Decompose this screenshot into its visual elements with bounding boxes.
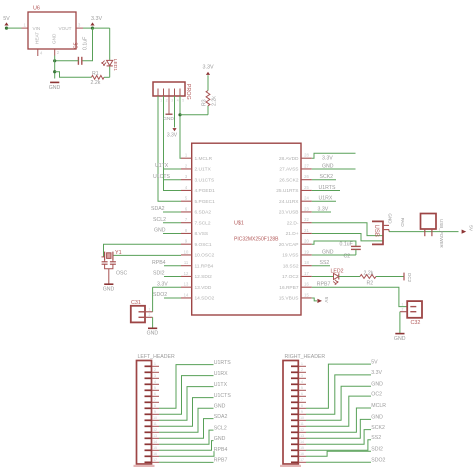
U1 left pin 1 [181,153,213,162]
svg-text:PROG: PROG [185,84,191,100]
wire RIGHT_HEADER to net GND [306,419,371,438]
svg-text:GND: GND [394,336,406,342]
svg-text:VOUT: VOUT [58,26,71,31]
wire RIGHT_HEADER to net SDI2 [306,451,371,456]
svg-text:13: 13 [300,434,304,438]
svg-text:VIN: VIN [33,26,41,31]
svg-text:SS2: SS2 [320,260,330,266]
wire GND column [54,56,56,79]
svg-text:5V: 5V [467,225,473,232]
U1 right pin 28 [279,153,312,162]
svg-text:3.3V: 3.3V [167,133,178,139]
U1 right pin 17 [282,271,312,280]
svg-text:2: 2 [166,99,168,103]
net 3.3V (U1 AVDD) [312,153,356,161]
capacitor C31 [131,300,153,322]
U6 HEAT pin stub [38,49,43,56]
net label SCK2 [312,174,336,180]
supply symbol 3.3V above R3 [203,65,214,75]
svg-text:5V: 5V [3,16,10,22]
svg-text:1: 1 [154,362,156,366]
svg-text:5: 5 [154,386,156,390]
svg-text:2: 2 [301,368,303,372]
wire LEFT_HEADER to net U1CTS [159,398,214,427]
wire R3 top [207,75,209,90]
svg-text:SDA2: SDA2 [214,414,228,420]
svg-text:3.3V: 3.3V [203,65,214,71]
svg-text:6.SDA2: 6.SDA2 [195,210,212,216]
svg-text:Y1: Y1 [115,250,122,256]
ground below C31 [148,327,157,329]
wire RIGHT_HEADER to net SCK2 [306,430,371,445]
svg-text:3.3V: 3.3V [318,206,329,212]
U1 left pin 9 [181,239,212,248]
net label U1RTS [312,185,340,191]
supply symbol 5V [3,16,10,30]
svg-text:12: 12 [153,428,157,432]
wire RIGHT_HEADER to net SS2 [306,440,371,451]
svg-text:GND: GND [388,213,393,224]
svg-text:3.3V: 3.3V [322,156,333,162]
U1 right pin 20 [279,239,312,248]
svg-text:18.SS2: 18.SS2 [283,263,299,269]
svg-text:SDI2: SDI2 [371,447,383,453]
svg-text:6: 6 [301,392,303,396]
svg-text:GND: GND [103,287,115,293]
svg-text:GND: GND [154,228,166,234]
U1 left pin 10 [181,249,215,258]
wire PROG pin5 / MCLR net [180,96,181,158]
svg-text:12: 12 [300,428,304,432]
svg-text:OC2: OC2 [407,273,412,283]
resistor R3 [202,91,218,107]
wire USB VBUS to USB_POWER [389,231,459,233]
capacitor C5 0.1uF [74,37,89,65]
svg-text:11.RPB4: 11.RPB4 [195,263,214,269]
svg-text:USB: USB [373,225,379,237]
svg-text:15: 15 [300,446,304,450]
junction at U6 GND / C5 [53,59,56,62]
svg-text:12.SDI2: 12.SDI2 [195,274,213,280]
svg-text:9.OSC1: 9.OSC1 [195,242,212,248]
wire PROG pin2 to U1 PGED1 [164,96,182,190]
wire LEFT_HEADER to net SCL2 [159,430,214,444]
svg-text:24.U1RX: 24.U1RX [279,199,299,205]
svg-text:LEFT_HEADER: LEFT_HEADER [138,354,175,360]
svg-text:16.RPB7: 16.RPB7 [279,285,299,291]
U1 left pin 6 [181,206,211,215]
U1 right pin 23 [279,206,312,215]
svg-text:GND: GND [214,404,226,410]
svg-text:U1RX: U1RX [214,371,228,377]
svg-text:SS2: SS2 [371,435,381,441]
regulator U6 [28,6,76,50]
svg-text:U1CTS: U1CTS [214,393,232,399]
svg-text:4.PGED1: 4.PGED1 [195,188,216,194]
svg-text:9: 9 [301,410,303,414]
connector USB_POWER [421,214,444,249]
svg-text:5: 5 [182,99,184,103]
svg-text:SCL2: SCL2 [153,217,166,223]
net label 3.3V (VUSB) [312,206,331,212]
svg-text:U1RTS: U1RTS [214,360,231,366]
resistor R1 [91,71,105,86]
svg-text:OSC: OSC [116,271,127,277]
svg-text:7: 7 [301,398,303,402]
svg-text:15.VBUS: 15.VBUS [279,296,299,302]
svg-text:13: 13 [153,434,157,438]
wire PROG pin1 to U1 PGEC1 [158,96,181,201]
wire OSC2 net [114,254,182,256]
wire MCLR junction to R3 [180,114,208,116]
svg-text:8: 8 [301,404,303,408]
svg-text:11: 11 [184,260,189,265]
junction MCLR net [178,113,181,116]
svg-text:11: 11 [300,422,304,426]
wire LEFT_HEADER to net RPB7 [159,461,214,463]
svg-text:RIGHT_HEADER: RIGHT_HEADER [285,354,326,360]
wire RIGHT_HEADER to net SDO2 [306,461,371,463]
svg-text:2.U1TX: 2.U1TX [195,167,212,173]
svg-text:RPB7: RPB7 [214,458,228,464]
wire LEFT_HEADER to net GND [159,408,214,432]
svg-text:SDO2: SDO2 [371,457,385,463]
svg-text:LED1: LED1 [112,59,118,72]
svg-text:15: 15 [153,446,157,450]
svg-text:C31: C31 [131,300,141,306]
wire 5V to U6 VIN [7,27,29,29]
U1 right pin 26 [279,174,312,183]
svg-text:7.SCL2: 7.SCL2 [195,220,211,226]
U1 right pin 19 [282,249,312,258]
U6 VOUT pin [76,23,83,29]
net label RPB4 [152,260,181,266]
net label SCL2 [153,217,181,223]
wire LED2 to R2 [339,275,360,277]
svg-text:3: 3 [171,99,173,103]
svg-text:20: 20 [304,239,309,244]
LED LED1 [102,59,118,72]
U1 left pin 3 [181,174,214,183]
wire R1 to LED1 [104,76,110,78]
U1 left pin 8 [181,228,208,237]
U1 right pin 27 [279,163,311,172]
svg-text:24: 24 [304,196,309,201]
svg-text:0.1uF: 0.1uF [340,242,353,248]
U1 left pin 11 [181,260,214,269]
net label U1CTS [153,174,181,180]
svg-text:2: 2 [149,313,151,317]
svg-text:4: 4 [301,380,303,384]
svg-text:5V: 5V [371,359,378,365]
svg-text:SCK2: SCK2 [320,174,334,180]
wire LED1 cathode [109,66,111,77]
supply arrow 5V right [462,225,474,234]
svg-text:1: 1 [160,99,162,103]
wire junction to R1 [55,72,92,78]
wire D- to USB [312,223,383,236]
U1 left pin 14 [181,292,215,301]
net label SS2 [312,260,330,266]
ground below C32 [395,333,404,335]
svg-text:22: 22 [304,217,309,222]
wire USB pad joiner [388,230,390,232]
net label SDO2 [153,292,181,298]
RIGHT_HEADER pin stubs [291,362,306,462]
svg-text:2.2k: 2.2k [212,96,218,106]
wire LEFT_HEADER to net U1RX [159,376,214,415]
wire RIGHT_HEADER to net MCLR [306,408,371,432]
wire RIGHT_HEADER to net GND [306,386,371,420]
svg-text:16: 16 [304,282,309,287]
svg-text:4: 4 [177,99,179,103]
svg-text:HEAT: HEAT [35,32,40,44]
svg-text:8.VSS: 8.VSS [195,231,209,237]
U1 left pin 4 [181,185,215,194]
svg-text:U1TX: U1TX [214,382,228,388]
svg-text:10: 10 [184,249,189,254]
svg-text:14: 14 [153,440,157,444]
U1 left pin 12 [181,271,212,280]
svg-text:U1TX: U1TX [155,163,169,169]
U1 right pin 15 [279,292,312,301]
svg-text:27.AVSS: 27.AVSS [279,167,298,173]
svg-text:5: 5 [301,386,303,390]
supply arrow 5V (U1 VBUS) [312,297,329,304]
svg-text:22.D-: 22.D- [287,220,299,226]
wire crystal to ground [108,269,110,284]
svg-text:2.2k: 2.2k [364,271,374,277]
svg-text:R2: R2 [367,280,374,286]
svg-text:USB_POWER: USB_POWER [439,219,444,249]
svg-text:10: 10 [153,416,157,420]
LEFT_HEADER pin stubs [145,362,160,462]
supply symbol 3.3V [90,16,102,30]
svg-text:PIC32MX250F128B: PIC32MX250F128B [234,237,279,243]
net GND (U1 AVSS) [312,164,356,170]
net label U1RX [312,196,336,202]
svg-text:U1RTS: U1RTS [319,185,336,191]
svg-text:RPB4: RPB4 [214,447,228,453]
svg-text:14.SDO2: 14.SDO2 [195,296,215,302]
svg-text:GND: GND [49,85,61,91]
ground below crystal [104,283,113,285]
svg-text:C5: C5 [74,42,80,49]
wire LEFT_HEADER to net U1TX [159,387,214,421]
svg-text:2: 2 [402,308,404,312]
svg-text:9: 9 [154,410,156,414]
svg-text:LED2: LED2 [331,268,344,274]
svg-text:1: 1 [402,302,404,306]
svg-text:3.3V: 3.3V [157,282,168,288]
svg-text:21: 21 [304,228,309,233]
svg-text:SDO2: SDO2 [153,292,167,298]
svg-text:3: 3 [154,374,156,378]
svg-text:19: 19 [304,249,309,254]
svg-text:GND: GND [371,415,383,421]
connector USB [372,221,383,244]
svg-text:12: 12 [184,271,189,276]
net label 3.3V (U1 VDD) + wire to C31 [153,282,181,312]
U1 right pin 16 [279,282,312,291]
op IC U1 PIC32MX250F128B [192,143,301,315]
wire C32 pin2 to ground [399,312,401,334]
wire R3 bottom [207,106,209,115]
svg-text:SCK2: SCK2 [371,425,385,431]
U1 left pin 2 [181,163,212,172]
ground below U6 [50,81,59,83]
svg-text:1.MCLR: 1.MCLR [195,156,213,162]
svg-text:25.U1RTS: 25.U1RTS [276,188,298,194]
svg-text:13: 13 [184,282,189,287]
junction at GND / R1 branch [53,70,56,73]
svg-text:10: 10 [300,416,304,420]
svg-text:2: 2 [154,368,156,372]
svg-text:16: 16 [153,452,157,456]
PROG pin4 to 3.3V arrow [167,96,178,139]
resistor R2 [360,271,376,287]
USB shield pad PAD [383,218,405,230]
svg-text:6: 6 [154,392,156,396]
svg-text:19.VSS: 19.VSS [282,253,298,259]
svg-text:3: 3 [301,374,303,378]
svg-text:1: 1 [301,362,303,366]
crystal load capacitors [102,260,128,276]
U1 left pin 7 [181,217,211,226]
svg-text:14: 14 [300,440,304,444]
wire 3.3V node down to capacitor [82,28,93,61]
U1 right pin 24 [279,196,312,205]
svg-text:7: 7 [154,398,156,402]
U1 right pin 25 [276,185,312,194]
svg-text:2.2k: 2.2k [91,80,101,86]
right header bottom cut-off mark [280,465,301,467]
PROG pin stubs [158,89,184,103]
connector LEFT_HEADER [137,354,175,464]
net label RPB7 + wire to C32 [312,282,407,307]
crystal Y1 [102,250,122,260]
U1 right pin 21 [286,228,312,237]
net label GND (U1 VSS pin8) [154,228,181,234]
svg-text:R1: R1 [92,71,99,77]
svg-text:C32: C32 [411,320,421,326]
svg-text:17: 17 [300,458,304,462]
svg-text:GND: GND [147,331,159,337]
svg-text:16: 16 [300,452,304,456]
capacitor C2 0.1uF [340,242,361,260]
U1 right pin 22 [287,217,312,226]
svg-text:17: 17 [304,271,309,276]
svg-text:18: 18 [304,260,309,265]
svg-text:U1CTS: U1CTS [153,174,171,180]
wire capacitor to GND junction [55,60,79,62]
wire VCAP to C2 [312,241,356,246]
wire 3.3V node to LED column [93,27,110,29]
svg-text:GND: GND [52,33,57,44]
wire LEFT_HEADER to net SDA2 [159,419,214,439]
svg-text:17: 17 [153,458,157,462]
svg-text:27: 27 [304,163,309,168]
svg-text:20.VCAP: 20.VCAP [279,242,299,248]
svg-text:28: 28 [304,153,309,158]
net label SDA2 [151,206,181,212]
svg-text:3.3V: 3.3V [91,16,102,22]
svg-text:17.OC2: 17.OC2 [282,274,299,280]
svg-text:SDI2: SDI2 [153,271,165,277]
svg-text:SDA2: SDA2 [151,206,165,212]
svg-text:5.PGEC1: 5.PGEC1 [195,199,216,205]
svg-text:U6: U6 [33,6,40,12]
U1 left pin 13 [181,282,212,291]
svg-text:26: 26 [304,174,309,179]
svg-text:GND: GND [371,382,383,388]
svg-text:3.3V: 3.3V [371,370,382,376]
wire OC2 to LED2 [312,275,334,277]
svg-text:23: 23 [304,206,309,211]
wire LED column vertical [109,28,111,60]
svg-text:OC2: OC2 [371,391,382,397]
wire LEFT_HEADER to net GND [159,441,214,451]
svg-text:5V: 5V [323,297,329,304]
wire RIGHT_HEADER to net 3.3V [306,375,371,414]
svg-text:15: 15 [304,292,309,297]
svg-text:4: 4 [154,380,156,384]
wire LEFT_HEADER to net U1RTS [159,365,214,409]
wire VOUT to 3.3V node [83,27,93,29]
net label SDI2 [153,271,181,277]
net stub OC2 (vertical tick + label) [404,273,412,283]
svg-text:8: 8 [154,404,156,408]
svg-text:GND: GND [214,436,226,442]
svg-text:R3: R3 [202,99,208,106]
svg-text:10.OSC2: 10.OSC2 [195,253,215,259]
svg-text:RPB4: RPB4 [152,260,166,266]
wire R2 to OC2 stub [376,275,404,277]
wire D+ to USB [312,233,383,240]
LED LED2 [331,268,344,284]
svg-text:23.VUSB: 23.VUSB [279,210,299,216]
svg-text:SCL2: SCL2 [214,425,227,431]
svg-text:U1RX: U1RX [319,196,333,202]
wire OSC1 net [104,244,182,257]
svg-text:25: 25 [304,185,309,190]
svg-text:21.D+: 21.D+ [286,231,299,237]
svg-text:0.1uF: 0.1uF [83,37,89,50]
wire LEFT_HEADER to net RPB4 [159,452,214,457]
svg-text:MCLR: MCLR [371,403,386,409]
connector RIGHT_HEADER [283,354,325,464]
svg-text:U$1: U$1 [234,221,244,227]
U1 left pin 5 [181,196,215,205]
svg-text:3.U1CTS: 3.U1CTS [195,177,215,183]
U1 right pin 18 [283,260,312,269]
left header bottom cut-off mark [134,465,155,467]
net label U1TX [155,163,181,169]
wire C31 pin2 to ground [152,317,154,328]
svg-text:PAD: PAD [400,218,405,228]
wire RIGHT_HEADER to net 5V [306,364,371,408]
connector PROG (5-pin header) [153,82,191,100]
USB shield pad GND [383,213,393,225]
wire RIGHT_HEADER to net OC2 [306,396,371,426]
svg-text:26.SCK2: 26.SCK2 [279,177,299,183]
svg-text:28.AVDD: 28.AVDD [279,156,299,162]
svg-text:GND: GND [163,116,174,122]
net GND (U1 VSS pin19) to C2 [312,249,356,255]
svg-text:GND: GND [322,249,334,255]
svg-text:14: 14 [184,292,189,297]
svg-text:13.VDD: 13.VDD [195,285,212,291]
